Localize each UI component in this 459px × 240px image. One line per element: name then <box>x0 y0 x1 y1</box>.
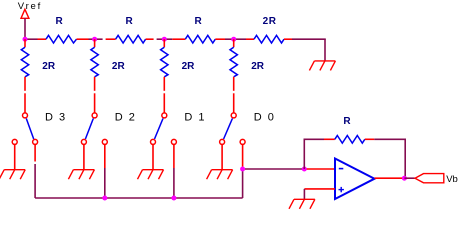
resistor R6 vertical 2R bit2 <box>91 47 98 77</box>
wire R6 to switch D2 <box>94 77 96 113</box>
resistor R4 terminating 2R <box>254 35 284 43</box>
switch D0 <box>220 113 246 144</box>
ground under D3 <box>0 170 25 180</box>
switch D2 blade <box>85 119 93 140</box>
svg-text:R: R <box>126 16 134 27</box>
wire D0 right contact to node E <box>242 144 244 198</box>
wire R3 to node D <box>215 38 233 40</box>
resistor R9 feedback <box>335 136 365 144</box>
wire node D to resistor R8 <box>233 39 235 47</box>
wire feedback riser left <box>303 139 305 170</box>
switch D0 blade <box>224 119 233 140</box>
wire D1 left contact to ground <box>152 144 154 169</box>
wire R5 to switch D3 <box>24 77 26 113</box>
wire node A to resistor R5 <box>24 39 26 47</box>
resistor R5 vertical 2R bit3 <box>21 47 28 77</box>
wire rail node C to R3 <box>164 38 185 40</box>
svg-text:Vb: Vb <box>446 174 458 185</box>
wire D1 right contact to bus <box>173 144 175 198</box>
wire D2 right contact to bus <box>104 144 106 198</box>
node B junction dot <box>92 37 97 42</box>
wire node G to output port <box>404 177 414 179</box>
wire R4 to right ground <box>284 39 326 61</box>
wire op-amp noninverting input to ground <box>304 189 335 199</box>
svg-text:2R: 2R <box>182 61 196 72</box>
bus junction dot at D1 <box>171 196 176 201</box>
switch D3 blade <box>26 119 33 140</box>
wire node F to op-amp inverting input <box>304 168 335 170</box>
svg-text:R: R <box>343 116 351 127</box>
wire R2 to node C <box>146 38 165 40</box>
power terminal Vref arrow <box>21 9 29 18</box>
switch D1 <box>151 113 177 144</box>
wire node B to resistor R6 <box>94 39 96 47</box>
wire R7 to switch D1 <box>163 77 165 113</box>
wire rail node D to R4 <box>234 38 254 40</box>
switch D2 <box>81 113 107 144</box>
wire node C to resistor R7 <box>163 39 165 47</box>
svg-text:2R: 2R <box>112 61 126 72</box>
wire rail node A to R1 <box>25 38 46 40</box>
wire D3 right contact to bus <box>34 144 36 198</box>
switch D3 <box>12 113 37 144</box>
svg-text:D 3: D 3 <box>45 112 67 124</box>
svg-text:D 2: D 2 <box>115 112 137 124</box>
ground right of R4 <box>309 61 335 71</box>
svg-text:R: R <box>195 16 203 27</box>
ground under D1 <box>138 170 164 180</box>
node A junction dot <box>23 37 28 42</box>
wire node E to node F <box>243 168 305 170</box>
svg-text:D 1: D 1 <box>184 112 206 124</box>
svg-text:Vref: Vref <box>18 1 42 12</box>
node G junction dot <box>402 176 407 181</box>
node E junction dot <box>240 167 245 172</box>
svg-text:2R: 2R <box>263 16 277 27</box>
switch D1 blade <box>155 119 164 140</box>
wire D0 left contact to ground <box>221 144 223 169</box>
resistor R7 vertical 2R bit1 <box>161 47 168 77</box>
resistor R1 <box>46 35 77 43</box>
ground at op-amp noninverting input <box>289 199 315 209</box>
resistor R3 <box>185 35 215 43</box>
wire R9 to output riser <box>365 139 405 179</box>
bus junction dot at D2 <box>102 196 107 201</box>
wire D3 left contact to ground <box>14 144 16 169</box>
wire node F to feedback resistor R9 <box>304 138 335 140</box>
resistor R8 vertical 2R bit0 <box>230 47 237 77</box>
svg-text:D 0: D 0 <box>254 112 276 124</box>
op-amp U1 minus sign <box>339 168 344 170</box>
wire Vref arrow to node A <box>24 18 26 39</box>
wire op-amp output to node G <box>375 177 405 179</box>
node D junction dot <box>231 37 236 42</box>
wire R1 to node B <box>77 38 95 40</box>
node C junction dot <box>162 37 167 42</box>
wire rail node B to R2 <box>95 38 116 40</box>
wire bottom bus <box>35 197 243 199</box>
svg-text:2R: 2R <box>251 61 265 72</box>
ground under D2 <box>68 170 94 180</box>
svg-text:2R: 2R <box>42 61 56 72</box>
op-amp U1 <box>335 159 375 200</box>
wire R8 to switch D0 <box>233 77 235 113</box>
ground under D0 <box>207 170 233 180</box>
wire D2 left contact to ground <box>83 144 85 169</box>
output port Vo <box>415 174 444 183</box>
resistor R2 <box>116 35 146 43</box>
svg-text:R: R <box>56 16 64 27</box>
op-amp U1 plus sign <box>339 187 344 192</box>
node F junction dot <box>302 167 307 172</box>
